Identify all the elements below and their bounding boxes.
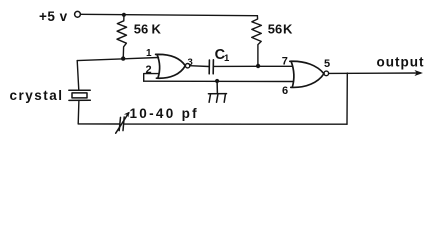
capacitor C2 10-40pf trimmer <box>116 112 130 134</box>
svg-text:6: 6 <box>282 85 288 97</box>
svg-text:K: K <box>283 21 293 36</box>
svg-text:10-40 pf: 10-40 pf <box>130 106 199 121</box>
svg-text:+5 v: +5 v <box>39 9 68 24</box>
capacitor C1 <box>209 60 213 74</box>
svg-text:K: K <box>152 22 162 37</box>
svg-text:1: 1 <box>146 48 152 59</box>
+5v terminal <box>75 11 81 17</box>
svg-text:output: output <box>377 55 425 70</box>
wire: feedback vertical from output <box>346 73 348 124</box>
node D: ground tap junction <box>215 79 219 83</box>
resistor R1 56K <box>117 17 127 57</box>
svg-text:7: 7 <box>282 55 288 67</box>
svg-text:56: 56 <box>268 21 282 36</box>
node B: junction of R1 and gate U1 input wire <box>121 56 125 60</box>
wire: bottom rail left segment <box>78 123 119 125</box>
op-amp U2: NOR gate B <box>290 61 329 87</box>
output arrowhead <box>415 70 423 76</box>
ground <box>208 81 226 102</box>
wire: U1 pin2 stub <box>144 74 159 82</box>
wire: bottom rail right segment <box>125 123 348 125</box>
node A: junction of top rail and R1 <box>122 13 126 17</box>
svg-text:56: 56 <box>134 22 148 37</box>
crystal Y1 <box>69 90 91 100</box>
wire: left rail top, U1 pin1 wire <box>77 58 158 61</box>
wire: top rail from +5v terminal to R2 <box>81 14 258 15</box>
svg-text:5: 5 <box>324 58 330 70</box>
svg-text:1: 1 <box>224 53 230 64</box>
wire: ground bus from U1 pin2 to U2 pin6 <box>144 80 293 82</box>
wire: left rail from crystal down to bottom rail <box>77 100 80 124</box>
wire: C1 to U2 pin7 <box>214 65 292 67</box>
wire: U1 output to C1 <box>190 65 209 68</box>
wire: left rail vertical down to crystal <box>77 61 79 91</box>
op-amp U1: NOR gate A <box>156 54 190 78</box>
node C: junction of R2 and gate U2 input wire <box>256 64 260 68</box>
wire: U2 output to arrow <box>329 72 421 74</box>
resistor R2 56K <box>252 16 262 64</box>
svg-text:crystal: crystal <box>10 88 64 103</box>
